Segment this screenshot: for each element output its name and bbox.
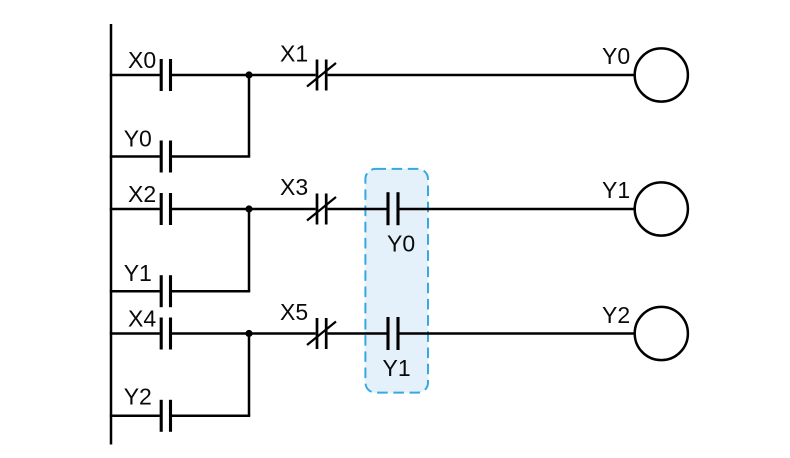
svg-text:Y1: Y1 [602, 177, 630, 203]
svg-text:Y0: Y0 [602, 43, 630, 69]
svg-text:Y0: Y0 [124, 125, 152, 151]
wire X5 to Y1 contact [328, 332, 387, 335]
svg-text:X1: X1 [280, 41, 308, 67]
svg-text:Y1: Y1 [124, 260, 152, 286]
wire X2 to node B [172, 208, 249, 211]
wire X1 to coil Y0 [328, 74, 635, 77]
wire branch2 rail to Y1 contact [110, 290, 160, 293]
wire Y1 contact to coil Y2 [400, 332, 635, 335]
contact X1 normally closed [307, 60, 336, 91]
svg-text:X0: X0 [128, 47, 156, 73]
wire rung3 rail to X4 [110, 332, 160, 335]
wire node B to X3 [249, 208, 316, 211]
wire Y1 contact to node B drop [172, 290, 250, 293]
wire node B vertical [248, 209, 251, 291]
contact Y2 seal-in branch [161, 400, 170, 432]
node A junction dot [245, 71, 252, 78]
wire Y2 contact to node C drop [172, 415, 250, 418]
svg-text:X3: X3 [280, 174, 308, 200]
highlight box around Y0/Y1 seal contacts [365, 169, 428, 393]
wire branch1 rail to Y0 contact [110, 155, 160, 158]
svg-text:Y2: Y2 [124, 384, 152, 410]
contact Y1 seal-in branch [161, 275, 170, 307]
contact X2 [161, 193, 170, 225]
contact X4 [161, 318, 170, 350]
contact X0 [161, 59, 170, 91]
coil Y2 [635, 307, 688, 360]
svg-text:Y0: Y0 [387, 230, 415, 256]
wire node C vertical [248, 334, 251, 416]
wire Y0 contact to node A drop [172, 155, 250, 158]
wire X3 to Y0 contact [328, 208, 387, 211]
wire node A to X1 [249, 74, 316, 77]
svg-text:Y1: Y1 [383, 355, 411, 381]
wire Y0 contact to coil Y1 [400, 208, 635, 211]
left power rail [110, 24, 113, 445]
contact Y1 interlock [388, 317, 398, 350]
contact Y0 interlock [388, 192, 398, 225]
svg-text:X5: X5 [280, 299, 308, 325]
wire X4 to node C [172, 332, 249, 335]
svg-text:X2: X2 [128, 181, 156, 207]
coil Y1 [635, 182, 688, 235]
wire branch3 rail to Y2 contact [110, 415, 160, 418]
wire rung2 rail to X2 [110, 208, 160, 211]
contact X5 normally closed [307, 318, 336, 349]
wire node C to X5 [249, 332, 316, 335]
contact Y0 seal-in branch [161, 141, 170, 173]
node B junction dot [245, 205, 252, 212]
svg-text:X4: X4 [128, 306, 156, 332]
contact X3 normally closed [307, 194, 336, 225]
wire node A vertical [248, 75, 251, 157]
coil Y0 [635, 48, 688, 101]
wire rung1 rail to X0 [110, 74, 160, 77]
node C junction dot [245, 330, 252, 337]
svg-text:Y2: Y2 [602, 302, 630, 328]
wire X0 to node A [172, 74, 249, 77]
